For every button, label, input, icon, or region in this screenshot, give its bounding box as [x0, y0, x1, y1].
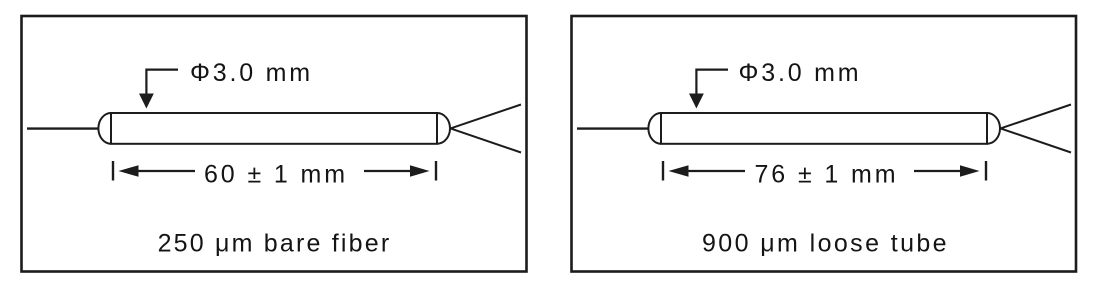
svg-text:76 ± 1 mm: 76 ± 1 mm — [754, 161, 898, 189]
fiber pigtail line (left panel) — [27, 127, 99, 129]
tube left end cap (right panel) — [648, 113, 661, 144]
fork line upper (left panel) — [451, 105, 522, 129]
tube left end cap (left panel) — [98, 113, 111, 144]
svg-text:Φ3.0 mm: Φ3.0 mm — [739, 59, 862, 87]
fork line lower (left panel) — [451, 128, 522, 152]
fork line lower (right panel) — [1001, 128, 1072, 152]
dimension left tick (left panel) — [112, 161, 114, 181]
dimension right line (right panel) — [914, 170, 961, 172]
dimension left line (left panel) — [137, 170, 195, 172]
tube body (left panel) — [111, 113, 437, 144]
diameter callout arrowhead (right panel) — [689, 94, 704, 109]
left panel border — [22, 16, 527, 272]
dimension right tick (left panel) — [435, 161, 437, 181]
svg-text:60 ± 1 mm: 60 ± 1 mm — [204, 161, 348, 189]
dimension left arrowhead (left panel) — [119, 165, 139, 177]
dimension left arrowhead (right panel) — [669, 165, 689, 177]
dimension right tick (right panel) — [985, 161, 987, 181]
tube right end cap (left panel) — [437, 113, 450, 144]
dimension right arrowhead (left panel) — [410, 165, 430, 177]
right panel border — [572, 16, 1077, 272]
tube body (right panel) — [661, 113, 987, 144]
svg-text:Φ3.0 mm: Φ3.0 mm — [190, 59, 313, 87]
diameter callout leader (right panel) — [696, 70, 728, 94]
diameter callout leader (left panel) — [146, 70, 178, 94]
diameter callout arrowhead (left panel) — [139, 94, 154, 109]
dimension right line (left panel) — [364, 170, 411, 172]
dimension left line (right panel) — [687, 170, 745, 172]
fork line upper (right panel) — [1001, 105, 1072, 129]
svg-text:900 μm loose tube: 900 μm loose tube — [702, 230, 949, 258]
svg-text:250 μm bare fiber: 250 μm bare fiber — [158, 230, 392, 258]
dimension right arrowhead (right panel) — [960, 165, 980, 177]
fiber pigtail line (right panel) — [577, 127, 649, 129]
tube right end cap (right panel) — [987, 113, 1000, 144]
dimension left tick (right panel) — [662, 161, 664, 181]
